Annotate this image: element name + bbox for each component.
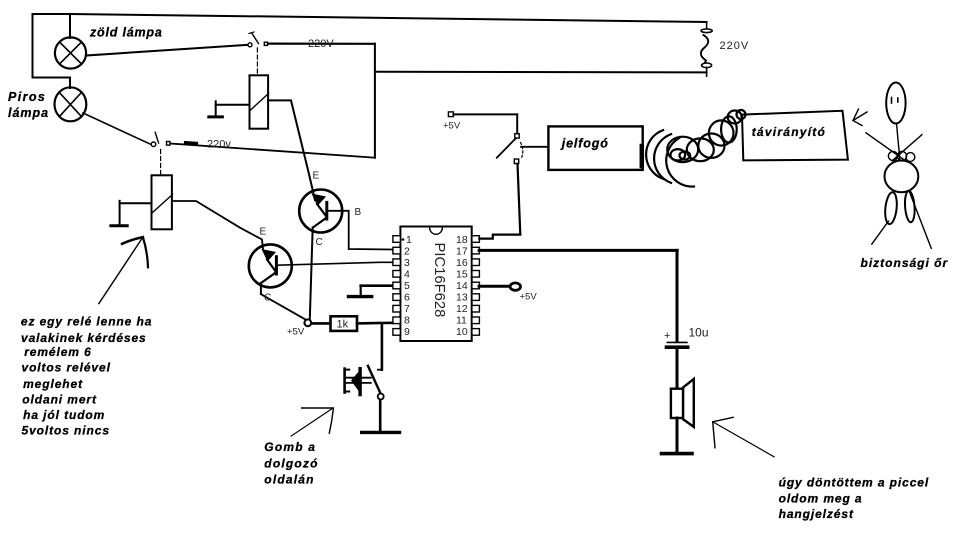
svg-text:meglehet: meglehet — [23, 377, 83, 391]
svg-text:PIC16F628: PIC16F628 — [431, 243, 447, 318]
svg-text:5: 5 — [404, 280, 410, 292]
svg-text:Gomb a: Gomb a — [264, 440, 316, 454]
svg-text:3: 3 — [404, 257, 410, 269]
svg-text:remélem 6: remélem 6 — [24, 345, 91, 359]
svg-text:10: 10 — [456, 326, 468, 338]
svg-text:dolgozó: dolgozó — [264, 456, 318, 470]
svg-text:5voltos nincs: 5voltos nincs — [22, 424, 110, 438]
svg-text:8: 8 — [404, 315, 410, 327]
svg-text:2: 2 — [404, 246, 410, 258]
svg-text:E: E — [260, 227, 267, 238]
svg-text:+5V: +5V — [443, 121, 461, 132]
svg-text:oldalán: oldalán — [264, 473, 314, 487]
svg-text:+5V: +5V — [520, 292, 538, 303]
svg-text:13: 13 — [456, 292, 468, 304]
svg-text:valakinek kérdéses: valakinek kérdéses — [21, 331, 147, 345]
svg-text:10u: 10u — [689, 326, 709, 340]
svg-text:6: 6 — [404, 292, 410, 304]
svg-text:C: C — [264, 293, 271, 304]
svg-text:4: 4 — [404, 269, 410, 281]
svg-text:oldani mert: oldani mert — [22, 392, 97, 406]
svg-text:16: 16 — [456, 257, 468, 269]
svg-text:jelfogó: jelfogó — [560, 136, 609, 150]
svg-text:220v: 220v — [207, 139, 231, 151]
svg-text:ez egy relé lenne ha: ez egy relé lenne ha — [21, 315, 152, 329]
svg-text:220V: 220V — [308, 38, 334, 50]
svg-text:17: 17 — [456, 246, 468, 258]
svg-text:9: 9 — [404, 326, 410, 338]
svg-text:voltos relével: voltos relével — [22, 361, 111, 375]
svg-text:15: 15 — [456, 269, 468, 281]
svg-text:7: 7 — [404, 303, 410, 315]
svg-text:E: E — [313, 171, 320, 182]
svg-text:úgy döntöttem a piccel: úgy döntöttem a piccel — [779, 475, 929, 489]
svg-text:220V: 220V — [720, 40, 750, 52]
svg-text:távirányító: távirányító — [752, 125, 826, 139]
svg-text:11: 11 — [456, 315, 467, 327]
svg-text:lámpa: lámpa — [8, 106, 49, 120]
svg-text:B: B — [355, 207, 362, 218]
svg-text:1k: 1k — [337, 319, 349, 331]
svg-text:1: 1 — [406, 234, 412, 246]
svg-text:hangjelzést: hangjelzést — [779, 507, 854, 521]
svg-text:ha jól tudom: ha jól tudom — [23, 408, 105, 422]
svg-text:oldom meg a: oldom meg a — [779, 492, 863, 506]
svg-text:C: C — [316, 237, 323, 248]
svg-text:+5V: +5V — [287, 327, 305, 338]
svg-text:+: + — [664, 330, 670, 342]
svg-text:zöld lámpa: zöld lámpa — [89, 26, 163, 40]
svg-text:biztonsági őr: biztonsági őr — [861, 256, 949, 270]
svg-text:Piros: Piros — [8, 90, 46, 104]
svg-text:12: 12 — [456, 303, 468, 315]
svg-text:14: 14 — [456, 280, 468, 292]
svg-text:18: 18 — [456, 234, 468, 246]
